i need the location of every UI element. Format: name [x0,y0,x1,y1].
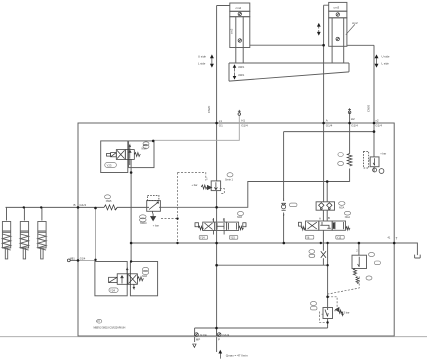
svg-text:CN05: CN05 [367,104,371,112]
svg-text:MBEV2-38010-CS/622ARKUH: MBEV2-38010-CS/622ARKUH [94,327,126,330]
svg-text:NG6: NG6 [142,275,148,278]
svg-text:NG6: NG6 [142,148,148,151]
svg-text:H2: H2 [351,117,355,121]
svg-text:cm2: cm2 [230,28,234,34]
svg-text:Serie 1: Serie 1 [225,179,234,182]
svg-text:Y15: Y15 [230,236,235,240]
svg-text:NW5: NW5 [106,200,112,203]
svg-text:G1/4: G1/4 [241,124,248,128]
svg-text:AW/1: AW/1 [238,73,245,77]
svg-text:+ bar: + bar [192,183,198,187]
svg-text:CN20: CN20 [207,105,211,113]
svg-text:cm2: cm2 [236,6,242,10]
svg-text:G1/4: G1/4 [375,124,382,128]
svg-text:H1: H1 [241,119,245,123]
svg-text:NW10: NW10 [140,222,147,225]
svg-text:L side: L side [198,62,206,66]
svg-text:Y6: Y6 [306,235,310,239]
svg-text:Qmax = 47 l/min: Qmax = 47 l/min [226,354,248,358]
svg-text:A: A [212,218,214,222]
svg-text:B: B [74,203,76,207]
svg-text:G1/4: G1/4 [80,203,87,207]
svg-text:L side: L side [382,62,390,66]
svg-text:NG6: NG6 [237,216,243,219]
svg-text:+ bar: + bar [380,152,386,156]
svg-text:A: A [326,119,328,123]
svg-text:A: A [319,217,321,221]
svg-text:U side: U side [198,55,206,59]
svg-text:Y13: Y13 [337,235,342,239]
svg-text:G1/4: G1/4 [351,124,358,128]
svg-text:Y24: Y24 [110,289,115,293]
svg-text:+ bar: + bar [153,224,159,228]
svg-text:cm3: cm3 [334,6,340,10]
svg-text:cm2: cm2 [352,21,358,25]
svg-text:G1: G1 [219,124,223,128]
svg-text:NGA: NGA [345,216,351,219]
svg-text:MB1: MB1 [70,257,76,260]
svg-text:G1/4: G1/4 [200,333,207,337]
svg-text:16,5 bar: 16,5 bar [340,311,350,315]
svg-text:MP: MP [196,338,201,342]
svg-text:B: B [223,218,225,222]
svg-text:T: T [396,237,398,241]
svg-text:G1/4: G1/4 [223,333,230,337]
svg-text:G1/4: G1/4 [80,256,86,260]
svg-text:Y14: Y14 [200,236,205,240]
svg-text:P: P [218,338,220,342]
svg-text:Y23: Y23 [107,164,112,168]
svg-text:G1/4: G1/4 [326,124,333,128]
svg-text:NGA: NGA [339,206,345,209]
svg-text:x2: x2 [375,119,379,123]
svg-text:AW/1: AW/1 [238,65,245,69]
svg-text:U side: U side [382,55,390,59]
svg-text:B: B [328,216,330,220]
svg-text:x1: x1 [219,119,223,123]
